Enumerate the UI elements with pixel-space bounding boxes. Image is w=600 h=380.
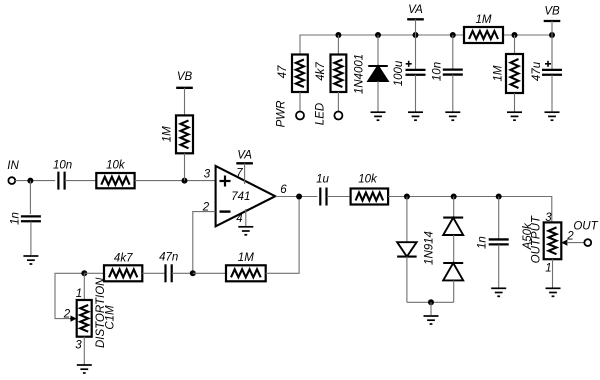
wire C1 to ground xyxy=(30,222,32,256)
value 1M for R3 xyxy=(162,126,174,142)
clipper bottom rail xyxy=(407,301,454,303)
ground below C8 xyxy=(545,112,560,120)
wire VB bar to rail xyxy=(551,21,553,35)
pot pin 3 label xyxy=(75,340,82,352)
wire pot pin1 to ground xyxy=(552,259,554,288)
potentiometer VR1 distortion xyxy=(77,300,92,337)
ground clipper xyxy=(424,316,439,324)
wire rail to R8 xyxy=(337,35,339,55)
svg-text:OUTPUT: OUTPUT xyxy=(530,215,542,263)
svg-text:VB: VB xyxy=(177,71,193,83)
resistor R6 10k output xyxy=(351,189,389,205)
svg-text:47u: 47u xyxy=(531,61,543,81)
node input junction xyxy=(27,178,33,184)
wire C5 to ground xyxy=(498,245,500,288)
svg-text:10n: 10n xyxy=(432,62,444,81)
svg-text:1u: 1u xyxy=(316,174,329,186)
wire rail to D1 xyxy=(377,35,379,66)
node clipper ground xyxy=(428,299,434,305)
pot pin 1 label xyxy=(76,288,82,300)
svg-text:47n: 47n xyxy=(159,252,178,264)
wire wiper loop xyxy=(55,273,84,318)
value 47 for R7 xyxy=(277,65,289,78)
potentiometer VR2 output A50k xyxy=(544,222,562,259)
pin 2 label xyxy=(202,202,210,214)
ground below D1 xyxy=(371,112,386,120)
resistor R5 1M feedback xyxy=(226,265,266,281)
wire VB to R3 xyxy=(184,88,186,116)
value 1N4001 xyxy=(354,54,366,94)
value 47n for C3 xyxy=(159,252,178,264)
wire input node down to C1 xyxy=(29,181,31,214)
pin 6 label xyxy=(280,184,287,196)
value 1N914 xyxy=(423,231,435,265)
value 1M for R9 xyxy=(493,65,505,81)
op-amp U1 741 xyxy=(216,166,276,226)
svg-text:LED: LED xyxy=(315,103,327,125)
capacitor C4 1u xyxy=(320,188,326,206)
ground below C5 xyxy=(491,288,506,296)
ground below C7 xyxy=(445,112,460,120)
value 1n for C1 xyxy=(10,212,22,225)
supply VB rail xyxy=(544,6,561,22)
svg-text:VB: VB xyxy=(544,6,560,18)
capacitor C5 1n output xyxy=(489,239,509,244)
power rail VA xyxy=(300,35,464,55)
svg-text:3: 3 xyxy=(75,340,82,352)
node rail 4k7 xyxy=(335,32,341,38)
svg-text:1M: 1M xyxy=(493,65,505,81)
node rail VA xyxy=(413,32,419,38)
capacitor C2 10n input xyxy=(58,172,64,190)
svg-text:1: 1 xyxy=(545,263,551,275)
out pot pin 1 label xyxy=(545,263,551,275)
svg-text:10n: 10n xyxy=(53,160,72,172)
wire C6 to ground xyxy=(415,75,417,112)
wire R3 to input node xyxy=(184,153,186,180)
wiper arrow VR1 pin2 xyxy=(70,316,77,322)
wire D2 to bottom rail xyxy=(406,257,408,303)
value 1u for C4 xyxy=(316,174,329,186)
capacitor C3 47n xyxy=(166,264,172,282)
label IN xyxy=(7,160,19,172)
wire node A to D2 xyxy=(406,197,408,243)
wire VA bar to rail xyxy=(415,19,417,35)
ground below C1 xyxy=(23,256,38,264)
ground below VR1 xyxy=(77,365,92,373)
resistor R9h 1M rail xyxy=(464,27,503,43)
wire D4 to bottom rail xyxy=(453,280,455,302)
svg-text:OUT: OUT xyxy=(573,221,598,233)
wire rail to R9 xyxy=(514,35,516,54)
svg-text:1n: 1n xyxy=(477,236,489,249)
svg-text:1n: 1n xyxy=(10,212,22,225)
ground below VR2 xyxy=(546,288,561,296)
wire R7 to PWR xyxy=(299,92,301,112)
wire C7 to ground xyxy=(452,75,454,112)
svg-text:VA: VA xyxy=(408,4,423,16)
wire node B to D3 xyxy=(453,197,455,218)
svg-text:7: 7 xyxy=(236,168,243,180)
node rail 10n xyxy=(450,32,456,38)
terminal IN jack xyxy=(8,177,15,184)
value 100u for C6 xyxy=(393,60,405,86)
node rail R9 xyxy=(512,32,518,38)
ground op-amp pin4 xyxy=(238,227,253,235)
wire pin2 to feedback node xyxy=(193,212,216,274)
node rail VB xyxy=(549,32,555,38)
svg-text:3: 3 xyxy=(204,168,211,180)
wire pot pin3 to ground xyxy=(83,337,85,365)
wire pin 4 to ground xyxy=(245,209,247,227)
label OUTPUT xyxy=(530,215,542,263)
out pot pin 3 label xyxy=(545,212,552,224)
wire R5 to output node xyxy=(266,197,299,274)
node op-amp output xyxy=(296,194,302,200)
svg-text:4: 4 xyxy=(236,213,242,225)
wire R4 to C3 xyxy=(142,272,165,274)
pin 3 label xyxy=(204,168,211,180)
node clipper A xyxy=(404,194,410,200)
label OUT xyxy=(573,221,598,233)
svg-text:1N914: 1N914 xyxy=(423,231,435,265)
svg-text:1M: 1M xyxy=(238,252,254,264)
node clipper B xyxy=(451,194,457,200)
svg-text:4k7: 4k7 xyxy=(315,62,327,81)
svg-text:10k: 10k xyxy=(106,160,126,172)
diode D3 xyxy=(443,218,463,235)
wire node to R4 xyxy=(84,272,104,274)
svg-text:10k: 10k xyxy=(358,174,378,186)
wire node to pot pin1 xyxy=(83,273,85,300)
resistor R8 4k7 LED xyxy=(331,55,347,93)
svg-text:6: 6 xyxy=(280,184,287,196)
svg-text:C1M: C1M xyxy=(105,305,117,330)
value 1n for C5 xyxy=(477,236,489,249)
wire wiper to OUT xyxy=(567,242,585,244)
capacitor C7 10n power xyxy=(443,70,463,75)
label C1M xyxy=(105,305,117,330)
wire rail to C7 xyxy=(452,35,454,70)
value 4k7 for R4 xyxy=(114,253,133,265)
supply VA op-amp pin7 xyxy=(236,150,253,164)
value 10n for C7 xyxy=(432,62,444,81)
wire D1 to ground xyxy=(377,81,379,112)
node bias junction xyxy=(182,178,188,184)
label LED xyxy=(315,103,327,125)
value 10n for C2 xyxy=(53,160,72,172)
wire IN to C2 xyxy=(15,180,55,182)
diode D2 1N914 xyxy=(397,242,417,256)
wire node to R5 xyxy=(193,272,226,274)
wire C8 to ground xyxy=(551,75,553,112)
svg-text:1N4001: 1N4001 xyxy=(354,54,366,94)
pot pin 2 label xyxy=(63,308,71,320)
value 10k for R2 xyxy=(106,160,126,172)
label A50k xyxy=(522,222,534,250)
resistor R3 1M bias xyxy=(176,115,193,153)
wire D3 to D4 xyxy=(453,235,455,263)
diode D4 xyxy=(443,263,463,280)
svg-text:100u: 100u xyxy=(393,60,405,86)
svg-text:2: 2 xyxy=(63,308,71,320)
power rail VB segment xyxy=(503,34,552,36)
resistor R9 1M VB xyxy=(506,54,523,93)
wire node to C5 xyxy=(498,197,500,240)
terminal LED xyxy=(334,112,342,120)
node rail D1 xyxy=(375,32,381,38)
value 1M for R9h xyxy=(476,14,492,26)
pin 4 label xyxy=(236,213,242,225)
wire R9 to ground xyxy=(514,93,516,112)
ground below R9 xyxy=(507,112,522,120)
svg-text:47: 47 xyxy=(277,65,289,78)
wire rail to C6 xyxy=(415,35,417,70)
supply VB bias xyxy=(176,71,193,88)
wiper arrow VR2 pin2 xyxy=(561,240,567,246)
wire C2 to R2 xyxy=(65,180,97,182)
label DISTORTION xyxy=(95,277,107,348)
ground below C6 xyxy=(408,112,423,120)
svg-text:VA: VA xyxy=(237,150,252,162)
wire R2 to pin3 xyxy=(135,180,216,182)
wire rail to C8 xyxy=(551,35,553,70)
value 4k7 for R8 xyxy=(315,62,327,81)
capacitor C1 1n shunt xyxy=(21,216,41,221)
wire R8 to LED xyxy=(337,92,339,112)
svg-text:1M: 1M xyxy=(162,126,174,142)
wire C3 to node xyxy=(172,272,193,274)
diode D1 1N4001 xyxy=(368,66,388,81)
node feedback left xyxy=(81,270,87,276)
supply VA rail xyxy=(407,4,424,19)
svg-text:4k7: 4k7 xyxy=(114,253,133,265)
node inverting feedback xyxy=(190,270,196,276)
wire VA to pin 7 xyxy=(244,163,246,184)
resistor R7 47 PWR xyxy=(292,55,308,93)
svg-text:1M: 1M xyxy=(476,14,492,26)
capacitor C8 47u xyxy=(542,61,562,75)
pin 7 label xyxy=(236,168,243,180)
terminal OUT jack xyxy=(584,239,591,246)
wire C4 to R6 xyxy=(327,196,351,198)
value 47u for C8 xyxy=(531,61,543,81)
svg-text:1: 1 xyxy=(76,288,82,300)
svg-text:PWR: PWR xyxy=(275,101,287,128)
capacitor C6 100u xyxy=(406,61,426,75)
value 1M for R5 xyxy=(238,252,254,264)
resistor R2 10k xyxy=(96,173,134,188)
wire pin6 to C4 xyxy=(276,196,318,198)
resistor R4 4k7 xyxy=(104,265,142,281)
svg-text:IN: IN xyxy=(7,160,19,172)
wire clipper to ground xyxy=(430,302,432,315)
wire R6 to output pot xyxy=(388,197,552,223)
label PWR xyxy=(275,101,287,128)
out pot pin 2 label xyxy=(566,231,574,243)
terminal PWR xyxy=(296,112,304,120)
svg-text:741: 741 xyxy=(231,191,250,203)
value 10k for R6 xyxy=(358,174,378,186)
node output cap xyxy=(496,194,502,200)
